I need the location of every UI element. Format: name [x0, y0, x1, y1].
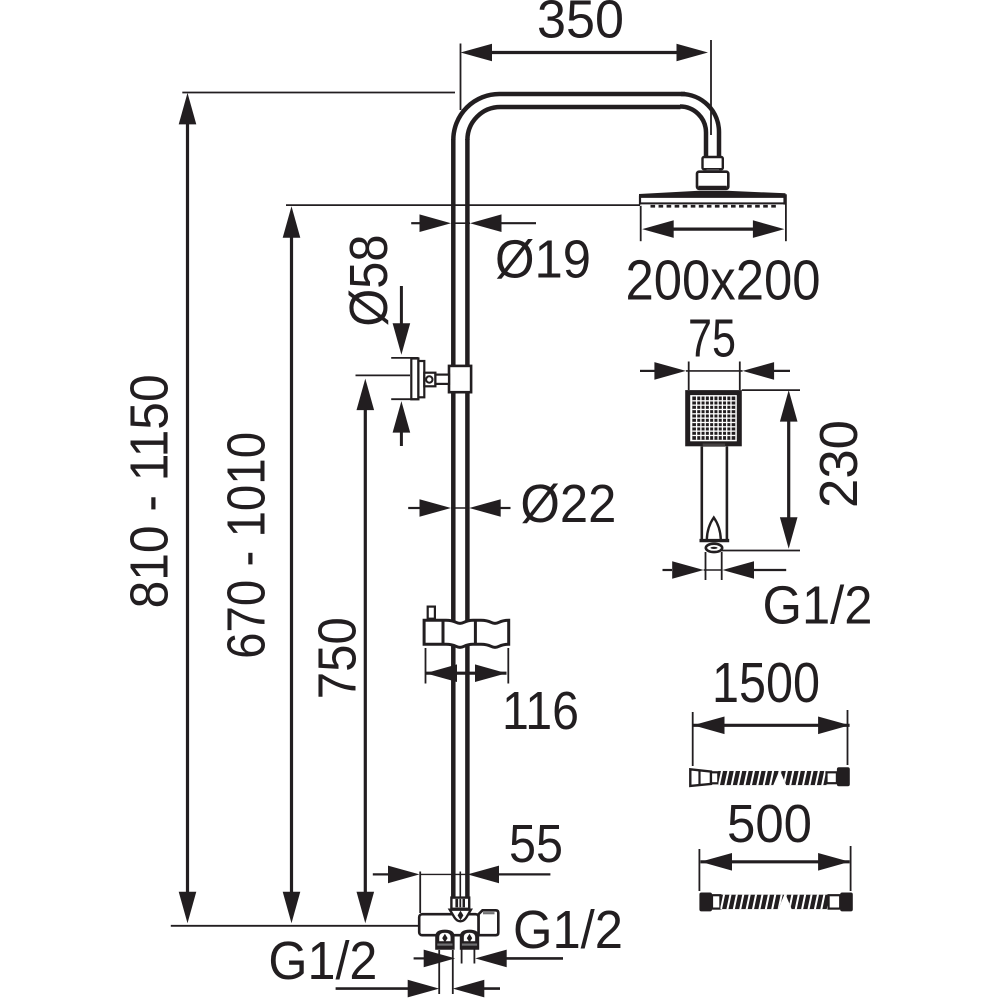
svg-text:Ø22: Ø22	[520, 474, 616, 534]
svg-text:G1/2: G1/2	[268, 931, 377, 991]
svg-text:810 - 1150: 810 - 1150	[119, 374, 179, 608]
svg-text:G1/2: G1/2	[763, 576, 873, 636]
svg-text:230: 230	[809, 420, 869, 508]
svg-text:200x200: 200x200	[626, 249, 821, 313]
svg-text:670 - 1010: 670 - 1010	[216, 432, 276, 659]
svg-text:55: 55	[509, 814, 563, 874]
svg-text:500: 500	[727, 794, 812, 854]
svg-text:350: 350	[537, 0, 624, 50]
svg-text:Ø19: Ø19	[495, 230, 591, 290]
svg-text:750: 750	[307, 617, 367, 699]
svg-text:G1/2: G1/2	[513, 900, 623, 960]
svg-text:75: 75	[688, 309, 736, 369]
svg-text:116: 116	[502, 681, 579, 741]
svg-text:1500: 1500	[712, 651, 820, 715]
svg-text:Ø58: Ø58	[339, 235, 399, 327]
